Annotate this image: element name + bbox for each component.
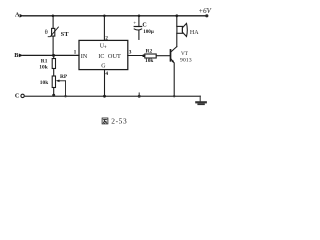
svg-text:G: G xyxy=(101,63,106,69)
wire bottom ground rail xyxy=(24,95,200,97)
svg-text:B: B xyxy=(14,52,19,59)
ground xyxy=(196,96,206,104)
svg-text:2-53: 2-53 xyxy=(111,117,127,126)
resistor R2 10k xyxy=(145,48,156,64)
svg-text:θ: θ xyxy=(45,29,48,36)
node C terminal xyxy=(15,92,24,99)
svg-text:OUT: OUT xyxy=(108,53,121,60)
svg-text:9013: 9013 xyxy=(180,58,192,64)
svg-text:IN: IN xyxy=(81,53,88,60)
wire RP bottom lead xyxy=(53,88,55,97)
junction dot HA/top rail xyxy=(175,14,178,17)
svg-text:+6V: +6V xyxy=(198,7,211,15)
svg-text:VT: VT xyxy=(181,51,189,57)
junction node B/ST/R1 xyxy=(52,54,55,57)
junction dot pin2/top rail xyxy=(103,15,106,18)
svg-text:ST: ST xyxy=(61,31,70,38)
speaker HA xyxy=(177,23,199,36)
potentiometer RP 10k xyxy=(40,74,68,96)
svg-text:IC: IC xyxy=(98,54,104,60)
wire B line to IC IN xyxy=(23,54,79,56)
junction dot ST/top rail xyxy=(52,15,55,18)
junction emitter/ground xyxy=(173,95,175,97)
wire HA top lead xyxy=(176,16,178,27)
thermistor ST xyxy=(45,27,70,38)
wire pin 2 xyxy=(103,16,105,41)
svg-text:1: 1 xyxy=(74,49,77,55)
svg-text:10k: 10k xyxy=(39,64,47,70)
junction dot cap/top rail xyxy=(138,15,141,18)
wire pin 4 to ground rail xyxy=(104,70,106,97)
svg-text:4: 4 xyxy=(105,71,108,77)
transistor Q1 VT 9013 xyxy=(171,47,192,97)
wire top +6V rail xyxy=(23,15,206,17)
junction RP bottom xyxy=(52,94,55,97)
op-amp U1 IC box xyxy=(79,40,128,69)
junction pin4/ground xyxy=(103,95,106,98)
resistor R1 10k xyxy=(39,59,55,71)
wire R1-RP xyxy=(53,69,55,77)
+6V supply terminal xyxy=(198,7,211,18)
svg-text:2: 2 xyxy=(105,35,108,41)
svg-text:C: C xyxy=(15,92,20,99)
wire R2 to base xyxy=(156,55,170,57)
wire ST bottom lead xyxy=(52,36,54,55)
wire pin 3 to R2 xyxy=(128,55,145,57)
svg-text:C: C xyxy=(142,23,146,29)
svg-text:3: 3 xyxy=(129,50,132,56)
junction dot out wire xyxy=(142,54,145,57)
wire HA to collector xyxy=(176,33,178,46)
svg-text:HA: HA xyxy=(190,30,199,36)
svg-text:+: + xyxy=(104,45,107,51)
svg-text:100μ: 100μ xyxy=(143,29,154,35)
wire ST top lead xyxy=(52,16,54,29)
svg-text:+: + xyxy=(133,21,136,27)
svg-text:RP: RP xyxy=(60,74,68,80)
svg-text:A: A xyxy=(15,12,20,19)
svg-text:10k: 10k xyxy=(40,80,48,86)
svg-text:R2: R2 xyxy=(146,48,153,54)
node A terminal xyxy=(15,12,23,19)
wire R1 top lead xyxy=(53,55,55,58)
node B terminal xyxy=(14,52,23,59)
svg-text:10k: 10k xyxy=(145,58,153,64)
capacitor C 100u xyxy=(133,16,154,40)
caption figure number xyxy=(102,117,127,126)
junction wiper/ground line xyxy=(64,95,66,97)
junction dot ground rail below cap xyxy=(138,93,141,98)
